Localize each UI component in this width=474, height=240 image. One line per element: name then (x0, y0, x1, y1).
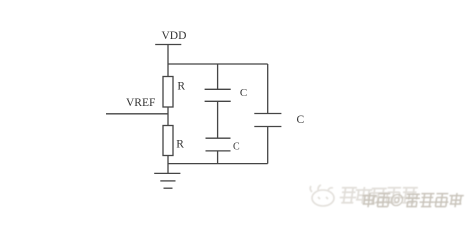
svg-text:R: R (177, 81, 185, 93)
svg-text:C: C (240, 87, 247, 99)
svg-text:C: C (297, 114, 305, 126)
svg-text:VDD: VDD (162, 30, 187, 42)
svg-text:R: R (176, 139, 184, 151)
svg-text:C: C (233, 142, 240, 153)
svg-text:VREF: VREF (126, 97, 155, 109)
